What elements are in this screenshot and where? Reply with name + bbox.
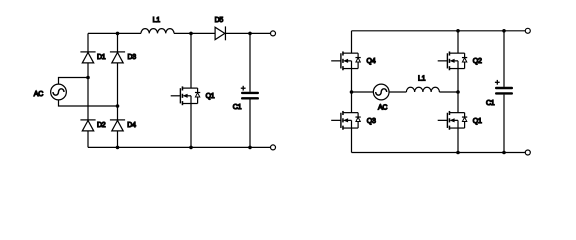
wire mid rail center <box>389 91 407 93</box>
svg-text:D4: D4 <box>127 122 136 129</box>
wire second vertical branch <box>117 33 119 147</box>
wire AC top lead <box>59 78 89 85</box>
svg-text:D3: D3 <box>128 54 137 61</box>
svg-text:C1: C1 <box>486 100 495 107</box>
terminal output positive left circuit <box>271 31 276 36</box>
inductor L1 <box>141 29 174 34</box>
wire right leg lower <box>457 128 459 152</box>
diode D2 <box>80 120 95 131</box>
label C1 plus <box>495 80 500 85</box>
wire right leg middle <box>457 69 459 113</box>
svg-text:C1: C1 <box>233 104 242 111</box>
node C1 top <box>248 32 252 36</box>
transistor Q3 <box>331 111 361 130</box>
svg-text:Q2: Q2 <box>473 58 482 65</box>
node Q2 drain top <box>456 29 460 33</box>
svg-text:D2: D2 <box>97 122 106 129</box>
diode D5 <box>215 26 225 40</box>
wire C1 top lead <box>249 33 251 91</box>
wire C1 bottom lead <box>249 100 251 148</box>
node right leg mid <box>456 90 460 94</box>
wire top rail left segment <box>88 32 141 34</box>
svg-text:Q4: Q4 <box>367 58 376 65</box>
node left leg mid <box>350 90 354 94</box>
wire top rail right segment <box>225 32 270 34</box>
capacitor C1 <box>241 92 259 100</box>
capacitor C1 <box>495 87 513 95</box>
wire C1 top lead <box>503 31 505 87</box>
wire right leg upper <box>457 31 459 53</box>
transistor Q4 <box>331 51 361 70</box>
svg-text:D5: D5 <box>215 17 224 24</box>
wire mid rail right <box>439 91 458 93</box>
node Q1 source bottom <box>456 151 460 155</box>
terminal output negative right circuit <box>525 150 530 155</box>
AC source left circuit <box>51 84 67 100</box>
transistor Q2 <box>438 51 468 70</box>
svg-text:D1: D1 <box>97 54 106 61</box>
diode D4 <box>110 120 125 131</box>
wire top rail mid segment <box>174 32 215 34</box>
transistor Q1 <box>438 111 468 130</box>
AC source right circuit <box>373 84 389 100</box>
wire bottom rail <box>352 152 526 154</box>
svg-text:Q1: Q1 <box>473 118 482 125</box>
node D4 bottom <box>116 146 120 150</box>
wire left leg lower <box>351 128 353 152</box>
diode D1 <box>80 52 95 63</box>
node C1 top <box>502 29 506 33</box>
node C1 bottom <box>502 151 506 155</box>
wire left leg middle <box>351 69 353 113</box>
svg-text:Q3: Q3 <box>367 118 376 125</box>
wire Q1 source lead <box>190 104 192 148</box>
wire top rail <box>352 30 526 32</box>
wire left leg upper <box>351 31 353 53</box>
node D3 top rail <box>116 32 120 36</box>
diode D3 <box>110 52 125 63</box>
wire C1 bottom lead <box>503 95 505 153</box>
label C1 plus <box>241 86 246 91</box>
svg-text:L1: L1 <box>153 17 161 24</box>
svg-text:L1: L1 <box>418 75 426 82</box>
node AC to bridge top <box>86 76 90 80</box>
wire AC bottom lead <box>59 100 118 106</box>
inductor L1 <box>406 87 439 92</box>
wire bottom rail <box>88 146 271 148</box>
node boost switch top <box>189 32 193 36</box>
transistor Q1 <box>171 86 201 105</box>
node C1 bottom <box>248 146 252 150</box>
svg-text:AC: AC <box>378 105 387 112</box>
wire mid rail left <box>352 91 374 93</box>
wire left vertical branch <box>87 33 89 147</box>
svg-text:AC: AC <box>34 91 43 98</box>
wire Q1 drain lead <box>190 33 192 88</box>
terminal output negative left circuit <box>271 145 276 150</box>
terminal output positive right circuit <box>525 28 530 33</box>
svg-text:Q1: Q1 <box>206 93 215 100</box>
node AC to bridge bottom <box>116 104 120 108</box>
node Q1 source bottom <box>189 146 193 150</box>
